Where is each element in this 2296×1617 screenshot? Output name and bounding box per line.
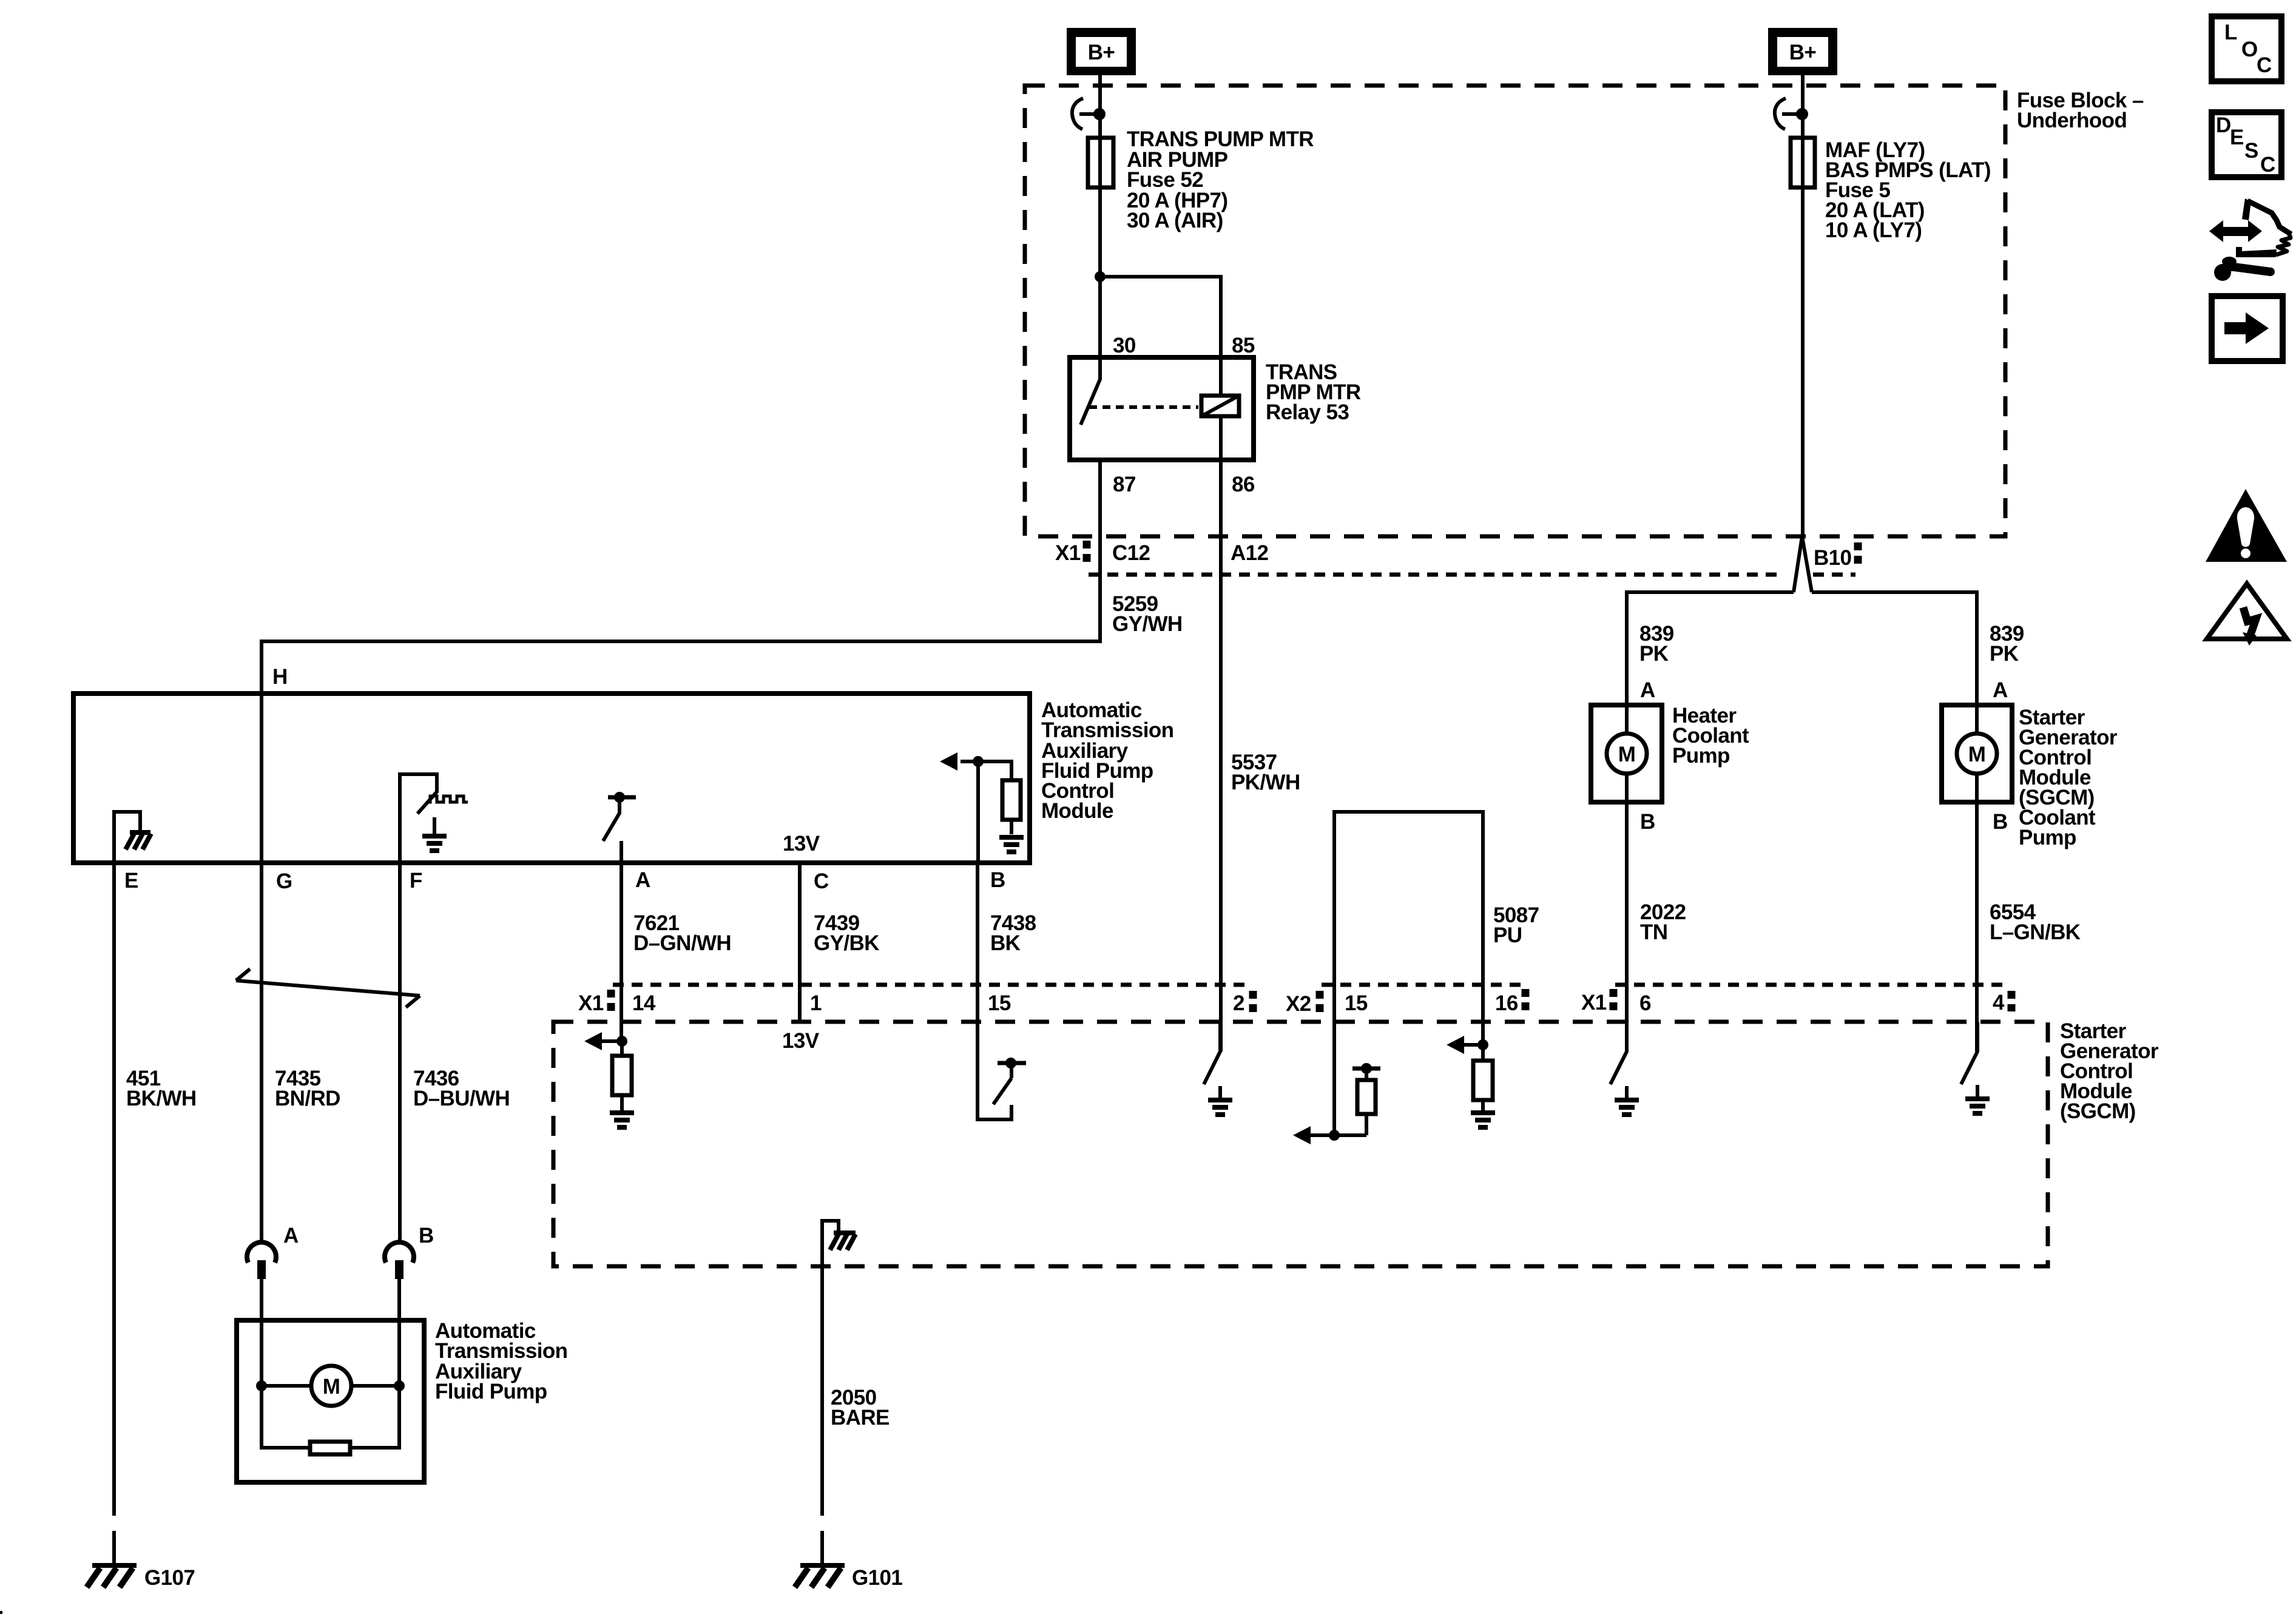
- svg-text:G107: G107: [144, 1566, 195, 1590]
- svg-text:C12: C12: [1112, 541, 1150, 565]
- svg-text:D–GN/WH: D–GN/WH: [633, 931, 731, 955]
- svg-text:15: 15: [988, 991, 1011, 1015]
- svg-text:13V: 13V: [783, 832, 820, 856]
- svg-text:B10: B10: [1814, 546, 1852, 570]
- svg-text:C: C: [814, 869, 829, 893]
- svg-text:PK/WH: PK/WH: [1231, 771, 1300, 794]
- svg-text:X1: X1: [578, 991, 604, 1015]
- svg-text:Fluid Pump: Fluid Pump: [435, 1380, 547, 1403]
- svg-text:Relay 53: Relay 53: [1266, 400, 1349, 424]
- svg-text:A: A: [1640, 678, 1655, 702]
- svg-text:X1: X1: [1055, 541, 1081, 565]
- svg-text:B: B: [990, 868, 1005, 892]
- svg-text:1: 1: [810, 991, 822, 1015]
- svg-text:85: 85: [1232, 334, 1255, 357]
- svg-text:B+: B+: [1088, 41, 1115, 64]
- svg-text:B: B: [1640, 810, 1655, 834]
- svg-text:4: 4: [1993, 991, 2005, 1014]
- svg-text:BK/WH: BK/WH: [126, 1087, 197, 1110]
- svg-text:10 A (LY7): 10 A (LY7): [1825, 218, 1922, 242]
- svg-text:6: 6: [1639, 991, 1651, 1015]
- svg-text:E: E: [124, 869, 138, 893]
- svg-text:H: H: [272, 665, 288, 689]
- svg-text:PK: PK: [1990, 642, 2019, 666]
- svg-text:B: B: [1993, 810, 2008, 834]
- svg-text:L–GN/BK: L–GN/BK: [1990, 920, 2081, 944]
- svg-text:D–BU/WH: D–BU/WH: [413, 1087, 510, 1110]
- svg-text:30 A (AIR): 30 A (AIR): [1127, 209, 1223, 232]
- svg-text:GY/BK: GY/BK: [814, 931, 879, 955]
- svg-text:A: A: [283, 1224, 299, 1247]
- svg-text:G: G: [276, 869, 292, 893]
- svg-text:GY/WH: GY/WH: [1112, 612, 1183, 636]
- svg-text:L: L: [2224, 21, 2237, 44]
- svg-text:(SGCM): (SGCM): [2060, 1099, 2136, 1123]
- svg-text:B: B: [419, 1224, 434, 1247]
- svg-text:M: M: [1618, 743, 1636, 766]
- svg-text:87: 87: [1113, 473, 1136, 496]
- svg-text:14: 14: [632, 991, 656, 1015]
- svg-text:E: E: [2230, 126, 2244, 149]
- svg-text:G101: G101: [852, 1566, 902, 1590]
- svg-text:S: S: [2244, 139, 2258, 163]
- svg-text:D: D: [2216, 113, 2231, 137]
- svg-text:Pump: Pump: [2019, 826, 2076, 849]
- svg-text:30: 30: [1113, 334, 1136, 357]
- svg-text:O: O: [2241, 38, 2258, 61]
- svg-text:PU: PU: [1493, 923, 1522, 947]
- svg-text:C: C: [2257, 53, 2272, 77]
- svg-text:Module: Module: [1041, 799, 1113, 823]
- svg-text:C: C: [2260, 153, 2275, 177]
- svg-text:A: A: [635, 868, 650, 892]
- svg-text:F: F: [410, 869, 422, 893]
- svg-text:15: 15: [1345, 991, 1368, 1015]
- svg-text:Pump: Pump: [1672, 744, 1730, 768]
- svg-text:Underhood: Underhood: [2017, 109, 2127, 132]
- svg-text:B+: B+: [1789, 41, 1817, 64]
- svg-text:X1: X1: [1581, 991, 1607, 1014]
- svg-text:TN: TN: [1640, 920, 1667, 944]
- svg-text:16: 16: [1495, 991, 1518, 1015]
- svg-text:A: A: [1993, 678, 2008, 702]
- svg-text:86: 86: [1232, 473, 1255, 496]
- svg-text:BK: BK: [990, 931, 1021, 955]
- svg-text:2: 2: [1233, 991, 1244, 1015]
- svg-text:BN/RD: BN/RD: [275, 1087, 340, 1110]
- svg-text:13V: 13V: [782, 1029, 820, 1053]
- svg-text:M: M: [323, 1375, 340, 1399]
- svg-text:BARE: BARE: [831, 1406, 890, 1430]
- svg-text:A12: A12: [1231, 541, 1269, 565]
- svg-text:M: M: [1968, 743, 1986, 766]
- svg-text:PK: PK: [1639, 642, 1669, 666]
- svg-text:X2: X2: [1286, 992, 1311, 1016]
